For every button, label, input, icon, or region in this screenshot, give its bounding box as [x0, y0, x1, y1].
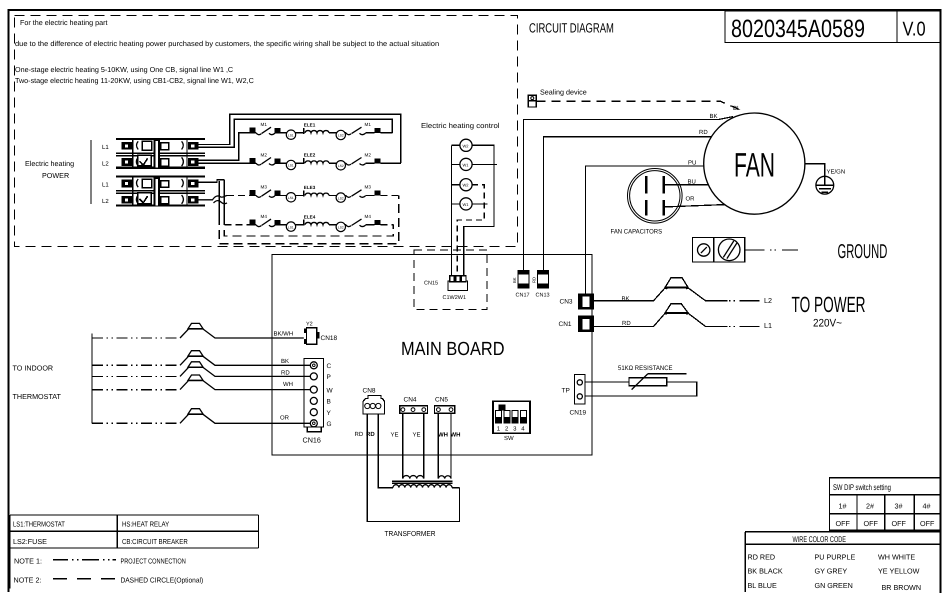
svg-text:BU: BU [688, 178, 696, 185]
svg-text:OFF: OFF [864, 519, 879, 528]
svg-text:FAN CAPACITORS: FAN CAPACITORS [611, 229, 663, 236]
svg-text:M4: M4 [365, 214, 372, 219]
wire color header [793, 535, 847, 544]
thermostat wire BK/WH [92, 337, 180, 339]
relay coil W1 [451, 158, 472, 170]
svg-text:WIRE COLOR CODE: WIRE COLOR CODE [793, 535, 847, 544]
connector CN15 [448, 276, 468, 291]
svg-text:M1: M1 [261, 122, 268, 127]
svg-text:220V~: 220V~ [813, 318, 842, 330]
svg-text:M4: M4 [261, 214, 268, 219]
svg-text:CN15: CN15 [424, 281, 438, 287]
svg-text:YE YELLOW: YE YELLOW [878, 567, 920, 576]
wire coil1 right loop to CN15 [464, 145, 494, 275]
wire CN17 up to BK corner [524, 117, 734, 271]
earth symbol [816, 176, 834, 194]
svg-text:LS2:FUSE: LS2:FUSE [13, 537, 47, 546]
svg-text:One-stage electric heating 5-1: One-stage electric heating 5-10KW, using… [15, 65, 233, 74]
thermostat wire RD [92, 375, 180, 377]
svg-text:RD RED: RD RED [748, 553, 776, 562]
svg-text:MAIN BOARD: MAIN BOARD [401, 339, 505, 360]
svg-text:CN8: CN8 [363, 388, 376, 395]
grommet L2 [665, 278, 688, 290]
wire CN4 YE secondary [402, 414, 404, 479]
legend text LS1 [13, 520, 65, 529]
svg-text:L2: L2 [764, 296, 772, 305]
thermostat rail [91, 334, 93, 424]
wire coil2 right stub [472, 163, 497, 165]
note text line 2 [15, 39, 439, 48]
svg-text:V.0: V.0 [903, 19, 926, 41]
svg-text:WH: WH [451, 431, 461, 438]
svg-text:NOTE 2:: NOTE 2: [14, 576, 42, 585]
connector CN8 [363, 396, 385, 415]
svg-text:LS1: LS1 [288, 164, 294, 168]
svg-text:OFF: OFF [892, 519, 907, 528]
svg-text:LS1: LS1 [288, 133, 294, 137]
wire CB2-L2 with crossing hops [199, 196, 228, 200]
svg-text:SW: SW [504, 435, 514, 442]
wire resistor loop to CN19 [585, 382, 697, 396]
label TRANSFORMER [385, 529, 436, 538]
svg-text:B: B [327, 399, 331, 406]
DIP switch SW [493, 401, 530, 433]
svg-text:CN3: CN3 [560, 299, 573, 306]
title text CIRCUIT DIAGRAM [529, 21, 614, 36]
svg-text:CN5: CN5 [435, 397, 448, 404]
heater branch row 2 [249, 158, 374, 166]
label electric heating control [421, 121, 500, 130]
drawing number 8020345A0589 [731, 15, 865, 43]
svg-text:W: W [327, 387, 334, 394]
svg-text:BL BLUE: BL BLUE [748, 581, 778, 590]
svg-text:For the electric heating part: For the electric heating part [20, 18, 108, 27]
svg-text:GROUND: GROUND [838, 241, 888, 263]
svg-text:YE: YE [391, 431, 399, 438]
wire CN3 up to PU corner [585, 166, 703, 294]
dashed wire coil3 to CN15 [457, 185, 484, 276]
svg-text:ELE4: ELE4 [304, 214, 316, 219]
svg-text:GY GREY: GY GREY [815, 567, 848, 576]
svg-text:SW DIP switch setting: SW DIP switch setting [833, 483, 891, 492]
svg-text:YE/GN: YE/GN [827, 169, 846, 176]
ground terminal block large [714, 238, 745, 263]
svg-text:TO POWER: TO POWER [792, 292, 866, 317]
label MAIN BOARD [401, 339, 505, 360]
connector CN4 [400, 406, 428, 414]
svg-text:BK: BK [281, 358, 289, 365]
svg-text:W1: W1 [463, 202, 470, 207]
svg-text:LS2: LS2 [338, 164, 344, 168]
svg-text:NOTE 1:: NOTE 1: [14, 557, 42, 566]
connector CN1 [578, 316, 594, 333]
svg-text:Sealing device: Sealing device [540, 88, 587, 97]
wire coil4 right stub [472, 203, 487, 205]
wire color rows [748, 553, 922, 593]
svg-text:due to the difference of elect: due to the difference of electric heatin… [15, 39, 439, 48]
svg-text:Y: Y [327, 410, 332, 417]
thermistor 51K [585, 374, 687, 390]
svg-text:8020345A0589: 8020345A0589 [731, 15, 865, 43]
svg-text:OR: OR [280, 415, 290, 422]
svg-text:RD: RD [699, 129, 708, 136]
wire CN8 pin3 RD down [378, 414, 393, 488]
svg-text:RD: RD [622, 320, 631, 327]
wire BU capacitor to fan [665, 184, 708, 186]
circuit breaker CB1 [116, 138, 205, 169]
heater branch row 4 [249, 219, 374, 227]
svg-text:LS2: LS2 [338, 134, 344, 138]
svg-text:WH: WH [283, 381, 293, 388]
dashed enclosure electric heating section [15, 16, 518, 247]
wire fan to earth [805, 164, 825, 186]
label bracket line [90, 140, 92, 204]
svg-text:L2: L2 [102, 161, 109, 168]
svg-text:LS2: LS2 [338, 226, 344, 230]
svg-text:PROJECT CONNECTION: PROJECT CONNECTION [121, 557, 186, 566]
svg-text:BR BROWN: BR BROWN [882, 583, 922, 592]
transformer primary coil [393, 485, 452, 488]
svg-text:Y2: Y2 [306, 321, 313, 327]
svg-text:OR: OR [686, 196, 696, 203]
thermostat wire OR [92, 422, 180, 424]
relay coil W1b [451, 198, 472, 210]
fan motor circle [704, 113, 805, 214]
wire CB2-L1 bridge [199, 180, 225, 182]
svg-text:M3: M3 [365, 185, 372, 190]
svg-text:Electric heating: Electric heating [25, 159, 74, 168]
version V.0 [903, 19, 926, 41]
SW DIP cells [839, 502, 931, 511]
fan capacitors [628, 169, 683, 224]
svg-text:RD: RD [281, 370, 290, 377]
title block divider [896, 11, 898, 43]
svg-text:WH: WH [438, 431, 448, 438]
wire CN13 up to RD corner [544, 137, 712, 271]
svg-text:W2: W2 [463, 183, 470, 188]
svg-text:WH WHITE: WH WHITE [878, 553, 915, 562]
wire CB1-L2 to heater row1 [199, 133, 250, 161]
svg-text:BK/WH: BK/WH [274, 330, 294, 337]
svg-text:4#: 4# [923, 502, 931, 511]
wire CB1-L1 to loop B (row1 return) [199, 119, 393, 147]
svg-text:M2: M2 [365, 152, 372, 157]
svg-text:51KΩ RESISTANCE: 51KΩ RESISTANCE [618, 365, 673, 372]
connector CN3 [578, 294, 594, 310]
svg-text:TP: TP [562, 388, 570, 395]
svg-text:P: P [327, 374, 331, 381]
dash-dot to L2 [729, 300, 759, 302]
svg-text:G: G [327, 421, 332, 428]
svg-text:GN GREEN: GN GREEN [815, 581, 853, 590]
connector CN18 [304, 328, 320, 345]
svg-text:L1: L1 [764, 321, 772, 330]
svg-text:CN13: CN13 [536, 293, 550, 299]
svg-text:3#: 3# [895, 502, 903, 511]
svg-text:W1: W1 [463, 162, 470, 167]
SW DIP table [829, 478, 940, 531]
svg-text:BK: BK [622, 295, 630, 302]
connector CN5 [435, 406, 455, 414]
relay coil W2 [451, 139, 472, 151]
heater branch row 3 [249, 190, 374, 197]
svg-text:Electric heating control: Electric heating control [421, 121, 500, 130]
svg-text:M2: M2 [261, 152, 268, 157]
svg-text:TO INDOOR: TO INDOOR [13, 364, 54, 373]
legend text CB [122, 537, 188, 546]
label FAN [734, 147, 775, 185]
svg-text:ELE3: ELE3 [304, 185, 316, 190]
svg-text:W2: W2 [463, 143, 470, 148]
svg-text:CN18: CN18 [321, 335, 338, 342]
svg-text:THERMOSTAT: THERMOSTAT [13, 392, 62, 401]
circuit breaker CB2 [116, 176, 205, 207]
note text line 4 [15, 76, 254, 85]
wire CN8 pin1 RD down [367, 414, 459, 522]
legend text HS [122, 520, 169, 529]
svg-text:2#: 2# [866, 502, 874, 511]
svg-text:POWER: POWER [42, 171, 69, 180]
svg-text:YE: YE [413, 431, 421, 438]
svg-text:LS2: LS2 [338, 196, 344, 200]
wire CN5 WH secondary [437, 414, 439, 479]
svg-text:TRANSFORMER: TRANSFORMER [385, 529, 436, 538]
wire BK to power L2 [594, 288, 728, 301]
thermostat wire WH [92, 389, 180, 391]
svg-text:Two-stage electric heating 11-: Two-stage electric heating 11-20KW, usin… [15, 76, 254, 85]
title block box [725, 11, 941, 43]
svg-text:L2: L2 [102, 198, 109, 205]
svg-text:LS1: LS1 [288, 225, 294, 229]
dashed lead heater row3 [227, 194, 249, 196]
svg-text:RD: RD [366, 431, 375, 438]
svg-text:CB:CIRCUIT BREAKER: CB:CIRCUIT BREAKER [122, 537, 188, 546]
svg-text:M3: M3 [261, 185, 268, 190]
svg-text:BL: BL [733, 105, 741, 112]
thermostat wire BK [92, 364, 180, 366]
connector CN13 [538, 271, 549, 289]
sealing device [528, 95, 536, 107]
svg-text:CN1: CN1 [559, 321, 572, 328]
main board outline [272, 255, 592, 456]
wire CB1-L1 to loop A (row2 return) [199, 114, 401, 163]
svg-text:BK BLACK: BK BLACK [748, 567, 783, 576]
svg-text:BK: BK [710, 113, 718, 120]
SW DIP table header [833, 483, 891, 492]
relay coil W2b [451, 179, 472, 191]
wire OR capacitor to fan [665, 205, 724, 207]
svg-text:ELE1: ELE1 [304, 122, 316, 127]
heating control left rail [450, 145, 452, 275]
svg-text:RD: RD [532, 277, 537, 283]
svg-text:M1: M1 [365, 122, 372, 127]
svg-text:L1: L1 [102, 182, 109, 189]
svg-text:FAN: FAN [734, 147, 775, 185]
grommet L1 [665, 304, 688, 315]
svg-text:1#: 1# [839, 502, 847, 511]
svg-text:RD: RD [355, 431, 364, 438]
label FAN CAPACITORS [611, 229, 663, 236]
connector CN16 [304, 359, 324, 432]
svg-text:C: C [327, 363, 332, 370]
svg-text:CN19: CN19 [570, 410, 587, 417]
transformer core [392, 480, 453, 482]
svg-text:CN16: CN16 [303, 436, 321, 445]
wire RD to power L1 [594, 313, 728, 326]
connector CN17 [518, 271, 529, 289]
dash-dot to L1 [729, 326, 759, 328]
legend table [10, 515, 259, 589]
label 220V [813, 318, 842, 330]
note text line 3 [15, 65, 233, 74]
svg-text:C1W2W1: C1W2W1 [443, 295, 467, 301]
dashed lead heater row4 [224, 224, 249, 226]
svg-text:OFF: OFF [836, 519, 851, 528]
svg-text:L1: L1 [102, 144, 109, 151]
heater branch row 1 [249, 127, 374, 135]
wire CB1-L2 to heater row2 [199, 162, 250, 164]
svg-text:BK: BK [512, 277, 517, 283]
dashed box around CN15 [414, 250, 487, 310]
svg-text:PU PURPLE: PU PURPLE [815, 553, 856, 562]
label TO POWER [792, 292, 866, 317]
svg-text:LS1: LS1 [288, 196, 294, 200]
label 51K resistance [618, 365, 673, 372]
label GROUND [838, 241, 888, 263]
svg-text:DASHED CIRCLE(Optional): DASHED CIRCLE(Optional) [121, 576, 204, 585]
svg-text:CN17: CN17 [516, 293, 530, 299]
svg-text:PU: PU [688, 159, 696, 166]
svg-text:OFF: OFF [920, 519, 935, 528]
svg-text:CIRCUIT DIAGRAM: CIRCUIT DIAGRAM [529, 21, 614, 36]
ground terminal block small [693, 238, 714, 263]
wire ground dash-dot [745, 249, 798, 251]
svg-text:LS1:THERMOSTAT: LS1:THERMOSTAT [13, 520, 65, 529]
wire color code table [745, 532, 940, 592]
wire vertical to inner dashed loop [223, 180, 225, 216]
svg-text:CN4: CN4 [404, 397, 417, 404]
pin letters C P W B Y G [327, 363, 334, 428]
svg-text:HS:HEAT RELAY: HS:HEAT RELAY [122, 520, 169, 529]
connector CN19 [575, 375, 586, 405]
wire vertical to outer dashed loop [218, 181, 220, 216]
dashed wire BL sealing device to fan [536, 101, 738, 109]
svg-text:ELE2: ELE2 [304, 153, 316, 158]
